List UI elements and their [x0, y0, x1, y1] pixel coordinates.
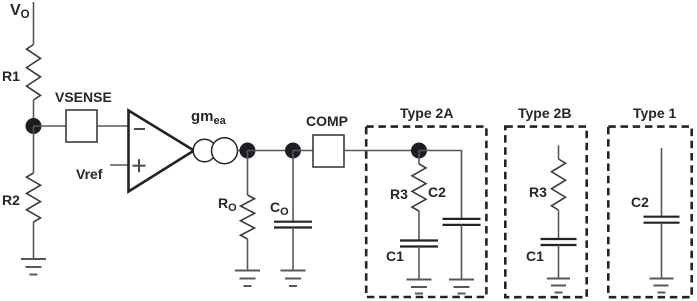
svg-text:R3: R3 [390, 186, 408, 202]
Type 1 dashed box [608, 127, 691, 298]
wire Vref to op-amp non-inverting input [110, 164, 129, 166]
wire node B down to RO [247, 151, 249, 196]
wire R2 to ground [33, 222, 35, 259]
svg-text:R3: R3 [529, 184, 547, 200]
wire node C down to CO [292, 151, 294, 222]
wire node C to COMP box [293, 150, 313, 152]
node B junction dot [240, 143, 256, 159]
wire C2 to ground (Type 1) [661, 223, 663, 279]
svg-text:Type 2B: Type 2B [518, 105, 571, 121]
wire node D down to R3 [418, 151, 420, 165]
svg-text:R1: R1 [2, 68, 20, 84]
COMP box [313, 135, 344, 167]
wire node B to node C [248, 150, 294, 152]
ground (C1 Type 2A) [407, 280, 432, 294]
svg-text:COMP: COMP [306, 113, 348, 129]
capacitor CO [274, 222, 312, 228]
wire node D to C2 branch [419, 151, 462, 219]
ground (Type 2B) [547, 279, 570, 293]
wire node A to R2 [33, 126, 35, 173]
wire C2 to ground [461, 225, 463, 280]
wire R3 to C1 [418, 211, 420, 241]
svg-text:Type 1: Type 1 [633, 105, 677, 121]
svg-text:C1: C1 [526, 248, 544, 264]
node D junction dot [411, 143, 427, 159]
resistor R3 (Type 2B) [552, 159, 566, 210]
wire C1 to ground (Type 2B) [558, 245, 560, 279]
ground (CO) [281, 271, 306, 287]
Type 2B dashed box [505, 127, 586, 298]
capacitor C1 (Type 2A) [400, 241, 438, 247]
wire CO to ground [292, 228, 294, 271]
capacitor C2 (Type 1) [644, 217, 680, 223]
svg-text:Type 2A: Type 2A [400, 105, 453, 121]
transconductance output circle 2 [212, 138, 238, 164]
resistor R1 [27, 45, 41, 101]
svg-text:C2: C2 [428, 184, 446, 200]
wire R1 to node A [33, 100, 35, 126]
node C junction dot [285, 143, 301, 159]
svg-text:C2: C2 [631, 194, 649, 210]
node A junction dot [26, 118, 42, 134]
capacitor C1 (Type 2B) [541, 239, 577, 245]
ground (R2) [21, 259, 46, 275]
wire node A to VSENSE box [34, 125, 67, 127]
svg-text:VSENSE: VSENSE [55, 89, 112, 105]
op-amp minus sign [134, 128, 145, 130]
transconductance output circle 1 [193, 139, 216, 162]
Type 2A dashed box [366, 127, 486, 297]
resistor R3 (Type 2A) [412, 164, 426, 211]
resistor R2 [27, 173, 41, 222]
wire VSENSE to op-amp inverting input [97, 125, 129, 127]
ground (RO) [235, 271, 260, 287]
wire gm output to node B [237, 150, 248, 152]
op-amp U1 triangle [129, 111, 195, 192]
wire stub to C2 (Type 1) [661, 148, 663, 217]
wire VO to R1 [33, 2, 35, 45]
ground (C2 Type 2A) [449, 280, 474, 294]
resistor RO [241, 195, 255, 239]
capacitor C2 (Type 2A right branch) [443, 219, 481, 225]
svg-text:R2: R2 [2, 192, 20, 208]
op-amp plus sign [133, 165, 146, 167]
svg-text:C1: C1 [386, 248, 404, 264]
ground (Type 1) [650, 279, 674, 293]
wire C1 to ground [418, 247, 420, 280]
svg-text:Vref: Vref [76, 166, 103, 182]
VSENSE box [66, 110, 97, 142]
wire stub to R3 (Type 2B) [558, 145, 560, 159]
wire COMP to node D [344, 150, 419, 152]
wire RO to ground [247, 239, 249, 271]
wire R3 to C1 (Type 2B) [558, 210, 560, 239]
